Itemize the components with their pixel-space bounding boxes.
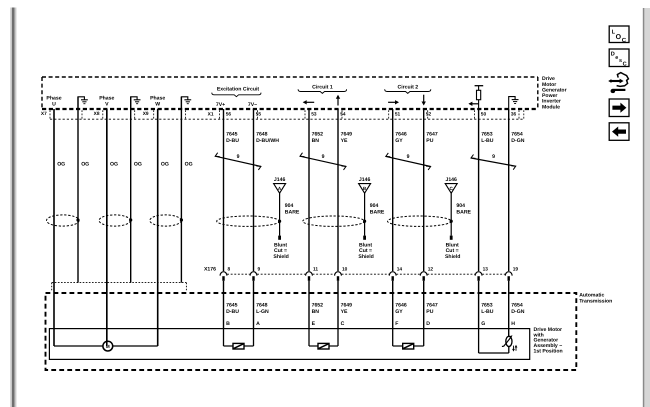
svg-text:10: 10 (342, 267, 348, 273)
svg-text:7649: 7649 (341, 131, 353, 137)
svg-text:Shield: Shield (273, 254, 288, 260)
svg-text:X176: X176 (204, 267, 216, 273)
svg-text:904: 904 (285, 203, 294, 209)
svg-text:X9: X9 (143, 111, 149, 117)
svg-text:7653: 7653 (481, 302, 493, 308)
svg-text:55: 55 (256, 112, 262, 118)
svg-text:9: 9 (258, 267, 261, 273)
svg-text:X8: X8 (94, 111, 100, 117)
svg-text:A: A (256, 321, 260, 327)
svg-text:53: 53 (311, 112, 317, 118)
svg-text:Phase: Phase (150, 96, 165, 102)
svg-text:YE: YE (341, 138, 348, 144)
svg-text:7652: 7652 (312, 131, 324, 137)
svg-text:904: 904 (456, 203, 465, 209)
svg-text:Shield: Shield (358, 254, 373, 260)
svg-text:904: 904 (370, 203, 379, 209)
svg-text:7V+: 7V+ (216, 102, 225, 108)
svg-text:BN: BN (312, 138, 320, 144)
svg-text:D-BU: D-BU (226, 309, 239, 315)
svg-text:13: 13 (483, 267, 489, 273)
svg-text:J146: J146 (274, 177, 286, 183)
svg-text:F: F (395, 321, 398, 327)
svg-text:E: E (312, 321, 316, 327)
svg-text:e: e (615, 55, 618, 61)
svg-text:GY: GY (395, 138, 403, 144)
svg-text:7646: 7646 (395, 302, 407, 308)
svg-text:Shield: Shield (445, 254, 460, 260)
svg-text:OG: OG (134, 162, 142, 168)
svg-text:Circuit 1: Circuit 1 (312, 84, 333, 90)
svg-text:9: 9 (492, 154, 495, 160)
svg-text:C: C (341, 321, 345, 327)
svg-text:1st Position: 1st Position (534, 348, 563, 354)
svg-text:Transmission: Transmission (579, 299, 612, 305)
svg-text:7653: 7653 (481, 131, 493, 137)
svg-text:56: 56 (226, 112, 232, 118)
svg-text:7652: 7652 (312, 302, 324, 308)
svg-text:M: M (106, 344, 110, 349)
svg-text:52: 52 (426, 112, 432, 118)
svg-text:11: 11 (313, 267, 318, 273)
svg-text:D-GN: D-GN (511, 138, 524, 144)
svg-text:Circuit 2: Circuit 2 (398, 84, 419, 90)
svg-text:PU: PU (426, 138, 433, 144)
svg-text:L-GN: L-GN (256, 309, 269, 315)
svg-text:7645: 7645 (226, 131, 238, 137)
svg-text:GY: GY (395, 309, 403, 315)
svg-text:7649: 7649 (341, 302, 353, 308)
svg-text:L-BU: L-BU (481, 309, 494, 315)
svg-text:C: C (622, 37, 627, 44)
svg-text:BN: BN (312, 309, 320, 315)
svg-text:9: 9 (237, 154, 240, 160)
svg-text:OG: OG (185, 162, 193, 168)
svg-text:W: W (155, 102, 160, 108)
svg-text:G: G (481, 321, 485, 327)
svg-text:51: 51 (395, 112, 401, 118)
svg-text:50: 50 (481, 112, 487, 118)
svg-text:Excitation Circuit: Excitation Circuit (217, 86, 260, 92)
svg-text:H: H (511, 321, 515, 327)
svg-text:J146: J146 (359, 177, 371, 183)
svg-text:C: C (623, 61, 627, 67)
svg-text:36: 36 (511, 112, 517, 118)
svg-text:D-BU/WH: D-BU/WH (256, 138, 279, 144)
svg-text:Phase: Phase (99, 96, 114, 102)
svg-text:7654: 7654 (511, 131, 523, 137)
svg-text:7645: 7645 (226, 302, 238, 308)
svg-text:OG: OG (81, 162, 89, 168)
svg-text:U: U (52, 102, 56, 108)
svg-text:s: s (619, 58, 622, 64)
svg-text:BARE: BARE (370, 209, 385, 215)
svg-text:X1: X1 (208, 111, 214, 117)
svg-text:7647: 7647 (426, 302, 438, 308)
svg-text:7648: 7648 (256, 131, 268, 137)
svg-text:J146: J146 (445, 177, 457, 183)
svg-text:PU: PU (426, 309, 433, 315)
svg-text:B: B (226, 321, 230, 327)
svg-text:BARE: BARE (285, 209, 300, 215)
svg-text:Phase: Phase (46, 96, 61, 102)
svg-text:YE: YE (341, 309, 348, 315)
svg-text:54: 54 (340, 112, 346, 118)
svg-text:7V−: 7V− (248, 102, 257, 108)
svg-text:8: 8 (228, 267, 231, 273)
svg-text:9: 9 (322, 154, 325, 160)
svg-text:19: 19 (513, 267, 519, 273)
svg-text:9: 9 (407, 154, 410, 160)
svg-text:D-BU: D-BU (226, 138, 239, 144)
svg-text:14: 14 (397, 267, 403, 273)
svg-text:L-BU: L-BU (481, 138, 494, 144)
svg-text:7646: 7646 (395, 131, 407, 137)
svg-text:OG: OG (110, 162, 118, 168)
svg-text:12: 12 (428, 267, 434, 273)
svg-text:7648: 7648 (256, 302, 268, 308)
svg-text:7654: 7654 (511, 302, 523, 308)
svg-text:OG: OG (57, 162, 65, 168)
svg-text:OG: OG (161, 162, 169, 168)
svg-text:D-GN: D-GN (511, 309, 524, 315)
svg-text:O: O (616, 34, 622, 41)
svg-text:BARE: BARE (456, 209, 471, 215)
svg-text:X7: X7 (41, 111, 47, 117)
svg-text:V: V (105, 102, 109, 108)
svg-text:D: D (426, 321, 430, 327)
svg-text:Module: Module (542, 104, 560, 110)
svg-text:7647: 7647 (426, 131, 438, 137)
